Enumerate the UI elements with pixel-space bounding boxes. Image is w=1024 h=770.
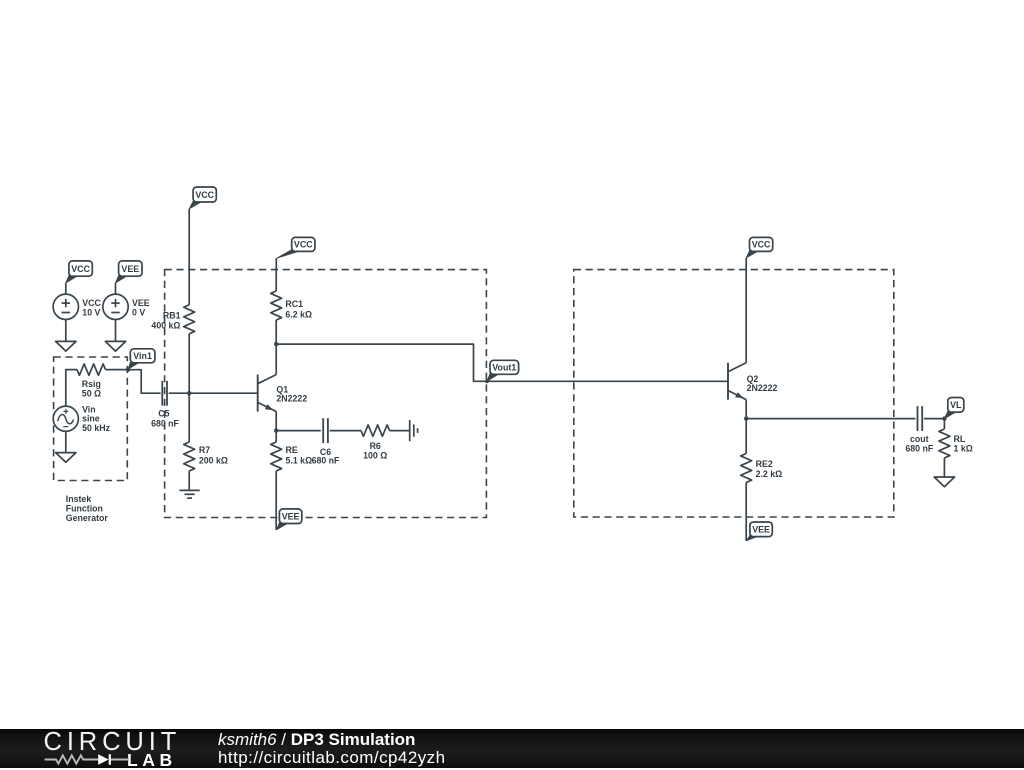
svg-text:RE: RE xyxy=(286,445,298,455)
resistor Rsig xyxy=(77,364,106,375)
svg-text:VCC: VCC xyxy=(752,240,771,250)
svg-text:6.2 kΩ: 6.2 kΩ xyxy=(285,309,312,319)
svg-text:Rsig: Rsig xyxy=(82,379,101,389)
wire Vin1 node to C5 xyxy=(128,370,161,394)
junction base node Q1 xyxy=(187,391,191,395)
junction Vout1 anchor xyxy=(485,379,489,383)
svg-text:680 nF: 680 nF xyxy=(312,455,340,465)
label R6 xyxy=(363,441,387,461)
wire Vin bottom to ground xyxy=(65,431,67,452)
label RE2 xyxy=(756,459,783,479)
svg-text:10 V: 10 V xyxy=(82,308,100,318)
wire Q1 collector lead xyxy=(275,344,277,375)
wire V1 bottom to ground xyxy=(65,320,67,342)
wire V2 flag to V2 top xyxy=(115,283,117,294)
svg-text:VCC: VCC xyxy=(195,190,214,200)
resistor RE2 xyxy=(741,454,752,483)
wire VCC flag to Q2 collector xyxy=(745,258,747,363)
node flag VCC (RC1) xyxy=(276,237,315,258)
svg-text:C5: C5 xyxy=(158,409,169,419)
svg-text:1 kΩ: 1 kΩ xyxy=(954,444,973,454)
wire VL node to RL xyxy=(943,419,945,429)
wire RB1 to base node xyxy=(188,334,190,393)
node flag VEE (source V2) xyxy=(115,261,142,283)
wire base node to Q1 base xyxy=(189,392,258,394)
capacitor C5 xyxy=(162,381,167,406)
wire emitter node Q2 to cout xyxy=(746,418,915,420)
CircuitLab logo resistor-diode glyph xyxy=(0,729,200,768)
ground Vin xyxy=(56,453,76,463)
node flag Vin1 xyxy=(128,349,155,370)
dashed box amplifier stage 1 xyxy=(165,270,487,518)
wire RE2 to VEE flag xyxy=(745,483,747,541)
svg-text:VL: VL xyxy=(950,400,962,410)
svg-text:RL: RL xyxy=(954,434,966,444)
svg-text:200 kΩ: 200 kΩ xyxy=(199,456,228,466)
node flag VL xyxy=(944,398,963,419)
wire Q2 emitter lead xyxy=(745,400,747,419)
wire collector node to Q2 base xyxy=(276,344,728,381)
svg-text:Generator: Generator xyxy=(66,513,109,523)
capacitor C6 xyxy=(323,418,328,443)
wire V2 bottom to ground xyxy=(115,320,117,342)
wire RE to VEE flag xyxy=(275,471,277,530)
svg-text:VCC: VCC xyxy=(71,264,90,274)
wire emitter node to C6 xyxy=(276,430,321,432)
junction Vin1 node xyxy=(126,368,130,372)
resistor RB1 xyxy=(184,305,195,334)
wire R6 to ground xyxy=(390,430,410,432)
CircuitLab logo text LAB xyxy=(127,752,177,770)
svg-text:R7: R7 xyxy=(199,445,210,455)
svg-text:680 nF: 680 nF xyxy=(151,418,179,428)
svg-text:R6: R6 xyxy=(370,441,381,451)
junction emitter node Q2 xyxy=(744,416,748,420)
label C5 xyxy=(151,409,179,429)
wire R7 to ground xyxy=(188,471,190,490)
dashed box amplifier stage 2 xyxy=(574,270,894,517)
svg-text:2N2222: 2N2222 xyxy=(747,383,778,393)
footer url xyxy=(218,749,446,766)
label V1 xyxy=(82,298,101,317)
ground R6 xyxy=(410,420,418,441)
dashed box Instek function generator xyxy=(54,357,128,481)
CircuitLab logo text CIRCUIT xyxy=(44,730,182,756)
resistor RL xyxy=(939,429,950,458)
svg-text:2N2222: 2N2222 xyxy=(276,394,307,404)
svg-text:cout: cout xyxy=(910,434,929,444)
svg-text:RE2: RE2 xyxy=(756,459,773,469)
ground RL xyxy=(934,477,954,487)
resistor RE xyxy=(271,442,282,471)
node flag VCC (source V1) xyxy=(66,261,93,283)
node flag VEE (RE2) xyxy=(746,522,772,541)
wire cout to VL node xyxy=(924,418,945,420)
svg-text:400 kΩ: 400 kΩ xyxy=(151,320,180,330)
resistor RC1 xyxy=(271,291,282,320)
label RC1 xyxy=(285,299,312,319)
label C6 xyxy=(312,447,340,465)
ground V2 xyxy=(105,341,125,351)
svg-text:0 V: 0 V xyxy=(132,308,145,318)
wire VCC flag to RB1 xyxy=(188,209,190,305)
ground R7 xyxy=(179,490,199,498)
svg-text:50 kHz: 50 kHz xyxy=(82,423,110,433)
label RE xyxy=(286,445,313,466)
node flag VCC (Q2) xyxy=(746,237,773,258)
label Rsig xyxy=(82,379,101,399)
svg-text:5.1 kΩ: 5.1 kΩ xyxy=(286,455,313,465)
voltage source V1 VCC xyxy=(53,294,78,319)
footer title ksmith6 / DP3 Simulation xyxy=(218,731,415,748)
wire Vin top to Rsig xyxy=(66,370,77,407)
label Q2 xyxy=(747,374,778,393)
capacitor cout xyxy=(918,406,923,431)
svg-text:RC1: RC1 xyxy=(285,299,303,309)
resistor R6 xyxy=(361,425,390,436)
svg-text:VEE: VEE xyxy=(752,525,770,535)
svg-text:Instek: Instek xyxy=(66,494,92,504)
label RL xyxy=(954,434,973,454)
svg-text:2.2 kΩ: 2.2 kΩ xyxy=(756,469,783,479)
svg-text:VCC: VCC xyxy=(294,240,313,250)
wire V1 flag to V1 top xyxy=(65,283,67,294)
label Instek Function Generator xyxy=(66,494,109,523)
svg-text:VEE: VEE xyxy=(282,512,300,522)
svg-text:RB1: RB1 xyxy=(163,311,181,321)
sine source Vin xyxy=(53,406,78,431)
wire RC1 to collector node xyxy=(275,320,277,344)
svg-text:680 nF: 680 nF xyxy=(905,444,933,454)
wire Q1 emitter lead xyxy=(275,412,277,431)
svg-text:100 Ω: 100 Ω xyxy=(363,451,387,461)
wire C5 to base node xyxy=(169,392,190,394)
junction collector node Q1 xyxy=(274,342,278,346)
wire emitter node Q2 to RE2 xyxy=(745,419,747,454)
ground V1 xyxy=(56,341,76,351)
label V2 xyxy=(132,298,150,317)
node flag VCC (RB1) xyxy=(189,187,216,209)
wire C6 to R6 xyxy=(330,430,361,432)
junction emitter node Q1 xyxy=(274,428,278,432)
wire VCC flag to RC1 xyxy=(275,258,277,291)
svg-text:50 Ω: 50 Ω xyxy=(82,389,101,399)
wire emitter node to RE xyxy=(275,431,277,442)
label RB1 xyxy=(151,311,180,331)
node flag Vout1 xyxy=(487,360,519,381)
label Vin xyxy=(82,404,110,433)
label R7 xyxy=(199,445,228,466)
label Q1 xyxy=(276,385,307,404)
voltage source V2 VEE xyxy=(103,294,128,319)
wire Rsig to Vin1 node xyxy=(106,369,129,371)
svg-text:Vout1: Vout1 xyxy=(492,363,516,373)
wire RL to ground xyxy=(943,458,945,477)
svg-text:Vin1: Vin1 xyxy=(133,351,152,361)
svg-text:Function: Function xyxy=(66,503,103,513)
svg-text:VEE: VEE xyxy=(121,264,139,274)
junction VL node xyxy=(942,416,946,420)
wire base node to R7 xyxy=(188,393,190,442)
label cout xyxy=(905,434,933,454)
transistor Q2 2N2222 xyxy=(728,363,746,400)
node flag VEE (RE) xyxy=(276,509,302,530)
resistor R7 xyxy=(184,442,195,471)
transistor Q1 2N2222 xyxy=(258,375,277,412)
